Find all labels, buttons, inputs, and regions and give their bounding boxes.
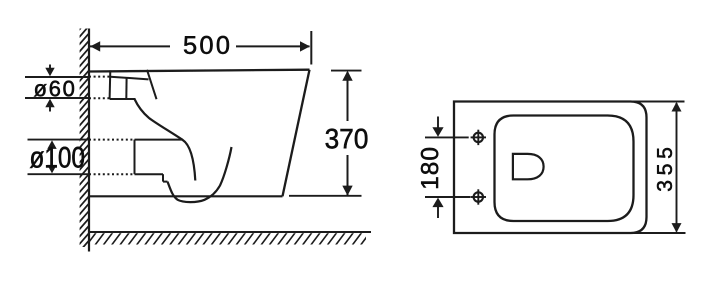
pan outline (plan view) <box>454 102 647 234</box>
cistern/outline extension line top <box>620 101 685 103</box>
dim 180 bottom arrow <box>437 205 439 219</box>
floor line <box>88 231 371 233</box>
floor hatching <box>86 232 379 246</box>
dim line o100 bottom <box>28 173 89 175</box>
extension line 500 right <box>310 31 312 65</box>
dim line 370 <box>347 72 349 121</box>
dim o100 double arrow <box>51 145 53 169</box>
dim line 180 top <box>425 136 469 138</box>
outlet pipe bottom edge <box>135 173 164 175</box>
dim 370 bottom arrow <box>342 186 352 196</box>
label 370 <box>326 129 368 149</box>
toilet pan top edge <box>89 70 310 72</box>
outlet pipe left edge <box>134 140 136 175</box>
dim o60 lower arrow <box>49 105 51 112</box>
hidden line inlet bottom <box>89 97 110 99</box>
dim 355 bottom arrow <box>672 223 682 233</box>
bowl back curve <box>135 99 196 181</box>
seat ring <box>495 116 634 222</box>
dim 500 left arrow <box>90 41 100 51</box>
dim line 180 bottom <box>425 196 470 198</box>
toilet pan bottom edge <box>89 195 283 197</box>
dim 355 top arrow <box>672 102 682 112</box>
hidden line inlet top <box>89 76 110 78</box>
hidden line outlet top <box>89 139 135 141</box>
wall line <box>88 29 90 252</box>
label o100 <box>30 147 84 168</box>
label o60 <box>34 81 74 97</box>
outlet pipe top edge <box>135 139 184 141</box>
extension line 370 bottom <box>289 195 362 197</box>
dim 500 right arrow <box>300 41 310 51</box>
wall hatching <box>79 19 89 253</box>
inlet socket left edge <box>109 70 112 99</box>
extension line 370 top <box>331 70 362 72</box>
outlet step vertical <box>162 174 164 181</box>
outlet step bottom <box>163 181 168 183</box>
label 355 <box>657 148 672 191</box>
dim line 500 <box>90 45 170 47</box>
dim line o60 top <box>25 76 88 78</box>
dim line o100 top <box>28 139 89 141</box>
label 180 <box>421 148 438 188</box>
flush pipe slant <box>147 70 157 99</box>
fixing bolt upper <box>474 133 483 142</box>
inlet socket inner edge <box>125 78 127 99</box>
fixing bolt lower <box>474 192 483 201</box>
trap curve <box>168 147 232 202</box>
toilet pan front (right) edge <box>283 70 310 197</box>
dim 180 top arrow <box>437 117 439 131</box>
inlet socket bottom edge <box>110 98 136 100</box>
dim line o60 bottom <box>25 97 88 99</box>
dim 370 top arrow <box>342 71 352 81</box>
hidden line outlet bottom <box>89 173 135 175</box>
inlet socket top edge <box>110 77 148 80</box>
cistern/outline extension line bottom <box>620 232 686 234</box>
dim o60 upper arrow <box>49 65 51 71</box>
label 500 <box>184 36 229 54</box>
water spot (D shape) <box>513 154 544 179</box>
dim line 355 <box>676 103 678 232</box>
